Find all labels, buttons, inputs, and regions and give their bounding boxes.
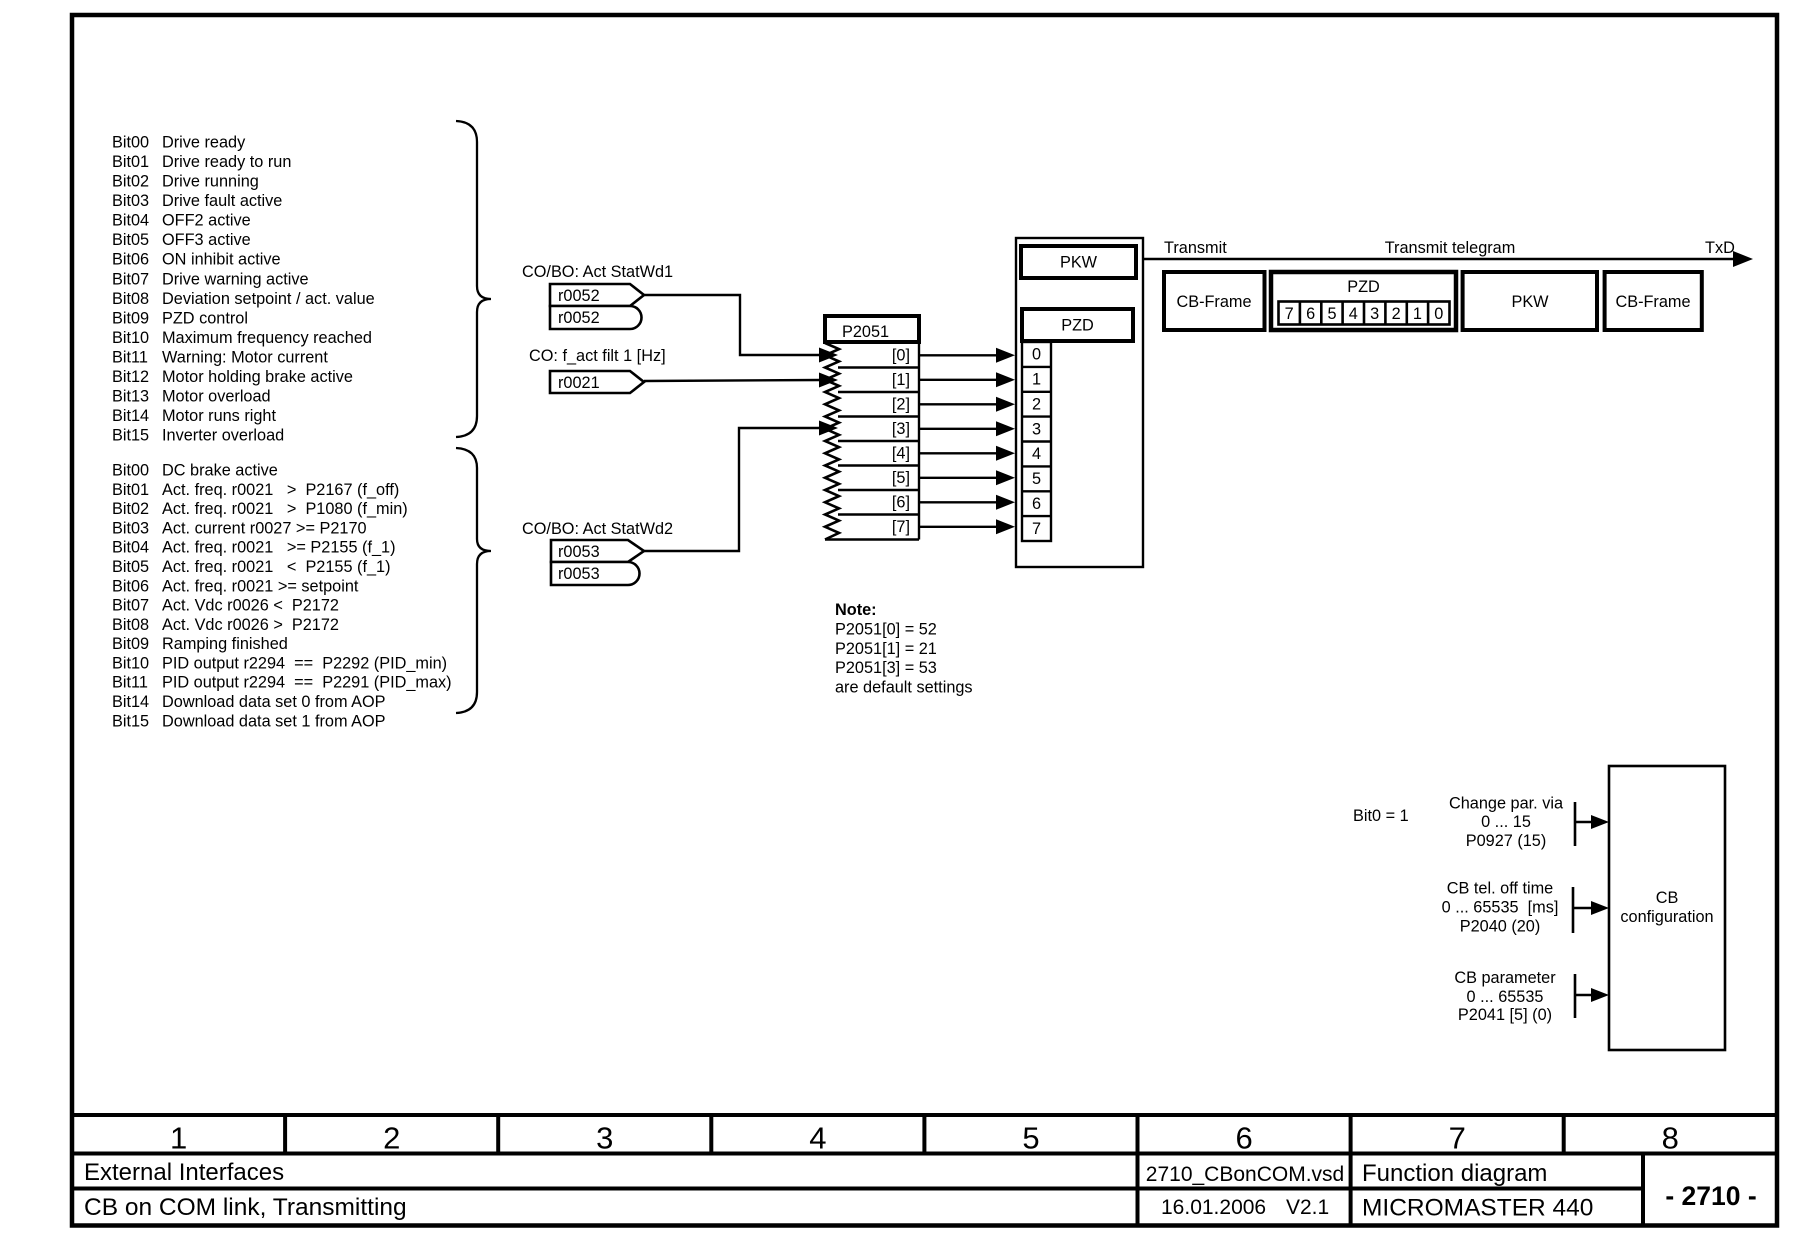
PZD bit cells: [1279, 302, 1450, 325]
svg-text:6: 6: [1032, 495, 1041, 513]
connector tag r0053 output: [551, 540, 644, 562]
svg-text:6: 6: [1306, 305, 1315, 323]
svg-text:Act. current r0027 >= P2170: Act. current r0027 >= P2170: [162, 519, 367, 537]
svg-text:Bit09: Bit09: [112, 309, 149, 327]
svg-text:Motor overload: Motor overload: [162, 388, 271, 406]
svg-text:Drive ready to run: Drive ready to run: [162, 153, 291, 171]
arrow P2041 into CB configuration: [1575, 994, 1594, 996]
wire P2051[1] to PZD word 1: [919, 379, 999, 381]
svg-text:Bit01: Bit01: [112, 481, 149, 499]
svg-text:Act. freq. r0021 > P1080 (f: Act. freq. r0021 > P1080 (f_min): [162, 500, 408, 518]
svg-text:[2]: [2]: [892, 396, 910, 414]
svg-text:0: 0: [1032, 346, 1041, 364]
svg-text:r0021: r0021: [558, 374, 600, 392]
svg-text:P2051[1] = 21: P2051[1] = 21: [835, 640, 937, 658]
svg-text:Act. Vdc r0026 < P2172: Act. Vdc r0026 < P2172: [162, 597, 339, 615]
svg-text:CB-Frame: CB-Frame: [1615, 293, 1690, 311]
svg-text:4: 4: [809, 1121, 826, 1156]
PZD section box: [1022, 309, 1133, 341]
svg-text:Bit06: Bit06: [112, 251, 149, 269]
svg-text:0 ... 65535: 0 ... 65535: [1467, 988, 1544, 1006]
svg-text:CB: CB: [1656, 889, 1679, 907]
wire P2051[5] to PZD word 5: [919, 477, 999, 479]
svg-text:Bit04: Bit04: [112, 539, 149, 557]
wire r0052 to P2051 row 0: [644, 295, 821, 355]
P2051 jagged left edge: [825, 343, 839, 540]
svg-text:2710_CBonCOM.vsd: 2710_CBonCOM.vsd: [1146, 1163, 1344, 1186]
column separator 1|2: [283, 1115, 287, 1154]
cell divider left of function diagram cell rows 2-3: [1349, 1154, 1353, 1226]
input bar P0927: [1574, 802, 1577, 846]
column separator 4|5: [922, 1115, 926, 1154]
telegram PKW box: [1463, 272, 1597, 330]
svg-text:Bit03: Bit03: [112, 519, 149, 537]
cell divider left of 2710 cell rows 2-3: [1641, 1154, 1645, 1226]
P2051 row separators: [838, 366, 919, 368]
svg-text:PKW: PKW: [1511, 293, 1549, 311]
title block rule under number row: [72, 1152, 1777, 1156]
PZD word numbers: [1032, 346, 1041, 538]
svg-text:Bit05: Bit05: [112, 231, 149, 249]
svg-text:4: 4: [1032, 445, 1041, 463]
svg-text:[1]: [1]: [892, 371, 910, 389]
svg-text:r0053: r0053: [558, 565, 600, 583]
column separator 2|3: [496, 1115, 500, 1154]
wire P2051[2] to PZD word 2: [919, 403, 999, 405]
svg-text:ON inhibit active: ON inhibit active: [162, 251, 281, 269]
svg-text:Drive ready: Drive ready: [162, 134, 246, 152]
input bar P2041: [1574, 974, 1577, 1018]
title block rule between description rows: [72, 1187, 1643, 1191]
svg-text:P2040 (20): P2040 (20): [1460, 918, 1541, 936]
svg-text:Act. freq. r0021 >= setpoint: Act. freq. r0021 >= setpoint: [162, 577, 359, 595]
svg-text:7: 7: [1285, 305, 1294, 323]
svg-text:Bit00: Bit00: [112, 462, 149, 480]
curly brace for status word 1: [456, 121, 491, 437]
svg-text:Bit11: Bit11: [112, 674, 148, 692]
svg-text:3: 3: [1370, 305, 1379, 323]
svg-text:CO: f_act filt 1 [Hz]: CO: f_act filt 1 [Hz]: [529, 347, 666, 365]
svg-text:0 ... 65535 [ms]: 0 ... 65535 [ms]: [1442, 899, 1559, 917]
arrowhead into P2051 row 1: [819, 373, 838, 388]
arrow P0927 into CB configuration: [1575, 821, 1594, 823]
arrow P2040 into CB configuration: [1573, 907, 1594, 909]
svg-text:Bit04: Bit04: [112, 212, 149, 230]
svg-text:CB on COM link, Transmitting: CB on COM link, Transmitting: [84, 1194, 407, 1221]
svg-text:4: 4: [1349, 305, 1358, 323]
svg-text:P2051[3] = 53: P2051[3] = 53: [835, 659, 937, 677]
svg-text:OFF3 active: OFF3 active: [162, 231, 251, 249]
svg-text:2: 2: [1032, 396, 1041, 414]
svg-text:7: 7: [1449, 1121, 1466, 1156]
svg-text:Download data set 1 from AOP: Download data set 1 from AOP: [162, 712, 386, 730]
P2051 index labels: [892, 347, 910, 537]
svg-text:are default settings: are default settings: [835, 678, 973, 696]
svg-text:Function diagram: Function diagram: [1362, 1160, 1547, 1187]
svg-text:7: 7: [1032, 520, 1041, 538]
svg-text:1: 1: [1032, 371, 1041, 389]
wire r0053 to P2051 row 3: [644, 428, 821, 551]
parameter input CB tel. off time: [1442, 880, 1559, 936]
svg-text:OFF2 active: OFF2 active: [162, 212, 251, 230]
PKW section box: [1021, 246, 1136, 278]
P2051 right edge: [918, 342, 920, 540]
svg-text:3: 3: [596, 1121, 613, 1156]
svg-text:Bit12: Bit12: [112, 368, 149, 386]
P2051 bottom edge: [825, 538, 919, 540]
svg-text:Warning: Motor current: Warning: Motor current: [162, 348, 328, 366]
svg-text:3: 3: [1032, 420, 1041, 438]
svg-text:Bit01: Bit01: [112, 153, 149, 171]
svg-text:Download data set 0 from AOP: Download data set 0 from AOP: [162, 693, 386, 711]
svg-text:Drive fault active: Drive fault active: [162, 192, 282, 210]
svg-text:Bit15: Bit15: [112, 427, 149, 445]
svg-text:Act. Vdc r0026 > P2172: Act. Vdc r0026 > P2172: [162, 616, 339, 634]
svg-text:PID output r2294 == P2292 (P: PID output r2294 == P2292 (PID_min): [162, 654, 447, 672]
svg-text:Maximum frequency reached: Maximum frequency reached: [162, 329, 372, 347]
svg-text:P2051[0] = 52: P2051[0] = 52: [835, 621, 937, 639]
svg-text:[5]: [5]: [892, 469, 910, 487]
column separator 7|8: [1562, 1115, 1566, 1154]
svg-text:Bit07: Bit07: [112, 597, 149, 615]
svg-text:PZD control: PZD control: [162, 309, 248, 327]
wire P2051[6] to PZD word 6: [919, 501, 999, 503]
wire P2051[0] to PZD word 0: [919, 354, 999, 356]
svg-text:P2041 [5] (0): P2041 [5] (0): [1458, 1006, 1552, 1024]
telegram assembly outer box: [1016, 238, 1143, 567]
svg-text:Bit00: Bit00: [112, 134, 149, 152]
svg-text:Act. freq. r0021 >= P2155 (f: Act. freq. r0021 >= P2155 (f_1): [162, 539, 396, 557]
svg-text:8: 8: [1662, 1121, 1679, 1156]
svg-text:5: 5: [1032, 470, 1041, 488]
svg-text:CO/BO: Act StatWd2: CO/BO: Act StatWd2: [522, 520, 673, 538]
svg-text:Bit11: Bit11: [112, 348, 148, 366]
svg-text:Bit0 = 1: Bit0 = 1: [1353, 807, 1409, 825]
svg-text:Bit06: Bit06: [112, 577, 149, 595]
svg-text:Bit08: Bit08: [112, 616, 149, 634]
svg-text:[7]: [7]: [892, 518, 910, 536]
svg-text:Bit08: Bit08: [112, 290, 149, 308]
cell divider left of vsd cell rows 2-3: [1136, 1154, 1140, 1226]
svg-text:Note:: Note:: [835, 601, 877, 619]
svg-text:MICROMASTER 440: MICROMASTER 440: [1362, 1195, 1593, 1222]
svg-text:CB-Frame: CB-Frame: [1176, 293, 1251, 311]
CB configuration box: [1609, 766, 1725, 1050]
svg-text:[4]: [4]: [892, 445, 910, 463]
svg-text:Inverter overload: Inverter overload: [162, 427, 284, 445]
svg-text:V2.1: V2.1: [1286, 1196, 1329, 1219]
input bar P2040: [1572, 887, 1575, 933]
svg-text:P0927 (15): P0927 (15): [1466, 832, 1547, 850]
svg-text:6: 6: [1235, 1121, 1252, 1156]
svg-text:[0]: [0]: [892, 347, 910, 365]
svg-text:r0052: r0052: [558, 309, 600, 327]
svg-text:2: 2: [1392, 305, 1401, 323]
svg-text:PZD: PZD: [1347, 278, 1380, 296]
svg-text:Bit10: Bit10: [112, 329, 149, 347]
svg-text:1: 1: [170, 1121, 187, 1156]
svg-text:Ramping finished: Ramping finished: [162, 635, 288, 653]
svg-text:[3]: [3]: [892, 420, 910, 438]
svg-text:Bit09: Bit09: [112, 635, 149, 653]
svg-text:Motor runs right: Motor runs right: [162, 407, 276, 425]
parameter box P2051 header: [825, 316, 919, 342]
telegram CB-Frame box right: [1605, 272, 1702, 330]
connector tag r0021 output: [550, 371, 644, 393]
svg-text:0: 0: [1434, 305, 1443, 323]
wire P2051[3] to PZD word 3: [919, 428, 999, 430]
svg-text:Bit03: Bit03: [112, 192, 149, 210]
wire transmit to TxD: [1143, 258, 1736, 260]
svg-text:Bit07: Bit07: [112, 270, 149, 288]
svg-text:PKW: PKW: [1060, 254, 1098, 272]
title block top rule: [72, 1113, 1777, 1117]
svg-text:Bit14: Bit14: [112, 407, 149, 425]
svg-text:Bit15: Bit15: [112, 712, 149, 730]
svg-text:Motor holding brake active: Motor holding brake active: [162, 368, 353, 386]
svg-text:PZD: PZD: [1061, 317, 1094, 335]
connector tag r0053 rounded: [551, 562, 640, 585]
note block: [835, 601, 973, 696]
telegram PZD box: [1271, 272, 1456, 330]
wire r0021 to P2051 row 1: [644, 380, 821, 381]
svg-text:2: 2: [383, 1121, 400, 1156]
arrowhead TxD: [1733, 251, 1753, 267]
parameter input CB parameter: [1454, 969, 1556, 1024]
column separator 3|4: [709, 1115, 713, 1154]
curly brace for status word 2: [456, 448, 491, 713]
svg-text:Bit05: Bit05: [112, 558, 149, 576]
svg-text:Bit02: Bit02: [112, 500, 149, 518]
svg-text:TxD: TxD: [1705, 239, 1735, 257]
status word 1 bit list: [112, 134, 375, 445]
svg-text:External Interfaces: External Interfaces: [84, 1159, 284, 1186]
telegram CB-Frame box left: [1164, 272, 1265, 330]
svg-text:Transmit: Transmit: [1164, 239, 1227, 257]
arrowhead into P2051 row 0: [819, 348, 838, 363]
svg-text:Bit02: Bit02: [112, 173, 149, 191]
svg-text:16.01.2006: 16.01.2006: [1161, 1196, 1266, 1219]
svg-text:r0052: r0052: [558, 287, 600, 305]
wire P2051[4] to PZD word 4: [919, 452, 999, 454]
arrowhead into P2051 row 3: [819, 421, 838, 436]
connector tag r0052 rounded: [550, 306, 642, 329]
svg-text:CO/BO: Act StatWd1: CO/BO: Act StatWd1: [522, 263, 673, 281]
svg-text:Act. freq. r0021 > P2167 (f: Act. freq. r0021 > P2167 (f_off): [162, 481, 399, 499]
svg-text:Transmit telegram: Transmit telegram: [1385, 239, 1516, 257]
svg-text:DC brake active: DC brake active: [162, 462, 278, 480]
connector tag r0052 output: [550, 284, 644, 306]
PZD word cell column: [1022, 342, 1051, 541]
svg-text:Drive warning active: Drive warning active: [162, 270, 309, 288]
parameter input Change par. via: [1449, 795, 1564, 851]
svg-text:P2051: P2051: [842, 323, 889, 341]
svg-text:- 2710 -: - 2710 -: [1665, 1181, 1756, 1211]
svg-text:Drive running: Drive running: [162, 173, 259, 191]
svg-text:CB parameter: CB parameter: [1454, 969, 1556, 987]
svg-text:5: 5: [1022, 1121, 1039, 1156]
wire P2051[7] to PZD word 7: [919, 526, 999, 528]
svg-text:1: 1: [1413, 305, 1422, 323]
svg-text:[6]: [6]: [892, 494, 910, 512]
svg-text:CB tel. off time: CB tel. off time: [1447, 880, 1553, 898]
svg-text:Change par. via: Change par. via: [1449, 795, 1564, 813]
column separator 5|6: [1136, 1115, 1140, 1154]
PZD bit numbers: [1285, 305, 1444, 323]
svg-text:5: 5: [1327, 305, 1336, 323]
svg-text:Deviation setpoint / act. valu: Deviation setpoint / act. value: [162, 290, 375, 308]
svg-text:configuration: configuration: [1620, 908, 1713, 926]
svg-text:Bit14: Bit14: [112, 693, 149, 711]
svg-text:Bit10: Bit10: [112, 654, 149, 672]
status word 2 bit list: [112, 462, 452, 731]
svg-text:0 ... 15: 0 ... 15: [1481, 813, 1531, 831]
column separator 6|7: [1349, 1115, 1353, 1154]
svg-text:PID output r2294 == P2291 (P: PID output r2294 == P2291 (PID_max): [162, 674, 452, 692]
svg-text:Bit13: Bit13: [112, 388, 149, 406]
svg-text:Act. freq. r0021 < P2155 (f: Act. freq. r0021 < P2155 (f_1): [162, 558, 391, 576]
svg-text:r0053: r0053: [558, 543, 600, 561]
